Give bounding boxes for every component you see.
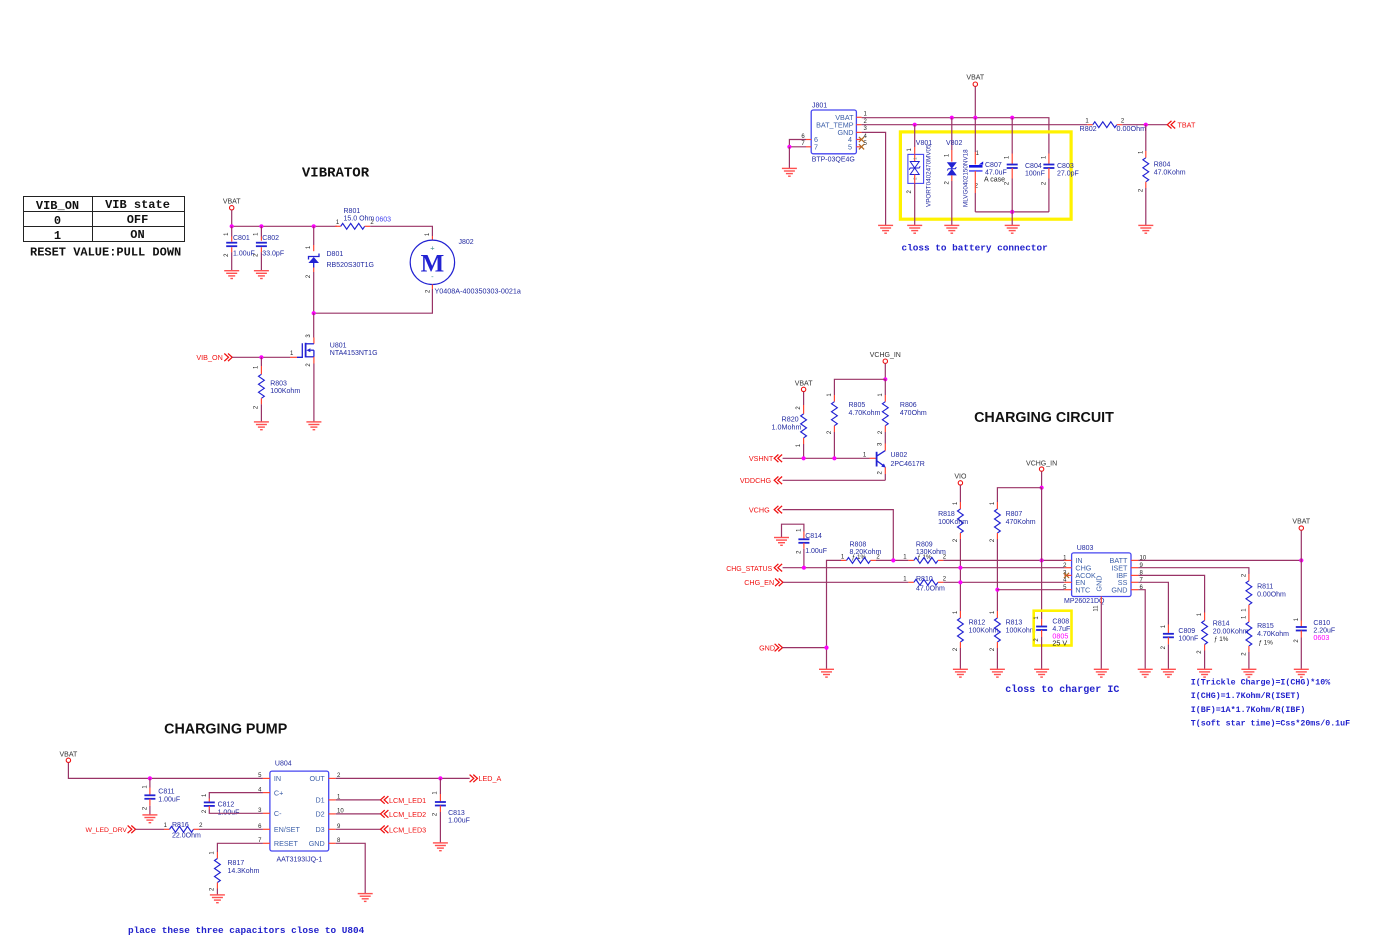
- ground (C808): [1034, 668, 1049, 670]
- svg-text:VIB state: VIB state: [105, 198, 170, 212]
- svg-text:OFF: OFF: [127, 213, 149, 227]
- svg-text:D1: D1: [315, 796, 324, 805]
- node junction C802: [259, 224, 263, 228]
- svg-text:closs to charger IC: closs to charger IC: [1005, 684, 1119, 696]
- resistor R803 100Kohm: [260, 357, 262, 366]
- svg-text:470Kohm: 470Kohm: [1006, 519, 1036, 526]
- ground (C813): [433, 842, 448, 844]
- svg-text:TBAT: TBAT: [1178, 121, 1196, 130]
- capacitor C814 1.00uF with ground: [782, 524, 804, 537]
- svg-text:M: M: [421, 250, 445, 277]
- varistor V802 MLVG0402150NV18: [951, 118, 953, 150]
- wire W_LED_DRV to R816: [136, 828, 165, 830]
- svg-text:R804: R804: [1154, 162, 1171, 169]
- resistor R817 14.3Kohm: [217, 843, 263, 852]
- wire R808 left vertical to GND port: [827, 560, 842, 669]
- node junction CHG: [958, 566, 962, 570]
- ground (U803 pin11): [1094, 668, 1109, 670]
- svg-text:R808: R808: [850, 541, 867, 548]
- svg-text:C807: C807: [985, 162, 1002, 169]
- svg-text:NTA4153NT1G: NTA4153NT1G: [330, 350, 378, 357]
- port LED_A: [470, 775, 478, 783]
- svg-text:R817: R817: [228, 860, 245, 867]
- svg-text:U802: U802: [891, 452, 908, 459]
- ground (C802): [254, 270, 269, 272]
- resistor R820 1.0Mohm: [803, 392, 805, 405]
- svg-text:11: 11: [1093, 605, 1099, 612]
- wire GND port: [783, 647, 827, 649]
- svg-text:ƒ 1%: ƒ 1%: [1259, 640, 1274, 647]
- diode D801 RB520S30T1G: [313, 226, 315, 245]
- connector J801 BTP-03QE4G: [811, 110, 856, 154]
- no-connect X pin4: [859, 137, 864, 142]
- wire U803 pin11 to ground: [1100, 597, 1102, 604]
- node junction VBAT/C810: [1299, 558, 1303, 562]
- svg-text:4.70Kohm: 4.70Kohm: [849, 410, 881, 417]
- port LCM_LED2: [336, 813, 381, 815]
- svg-text:100nF: 100nF: [1178, 636, 1198, 643]
- wire VBAT right drop: [1300, 530, 1302, 560]
- svg-text:CHARGING PUMP: CHARGING PUMP: [164, 722, 288, 738]
- svg-text:CHARGING CIRCUIT: CHARGING CIRCUIT: [974, 410, 1114, 426]
- svg-text:R811: R811: [1257, 584, 1273, 591]
- svg-text:1.0Mohm: 1.0Mohm: [772, 422, 802, 431]
- wire bottom rail (battery caps): [975, 211, 1049, 213]
- wire IN net: [943, 559, 1064, 561]
- svg-text:place these three capacitors c: place these three capacitors close to U8…: [128, 925, 365, 936]
- svg-text:1.00uF: 1.00uF: [448, 818, 470, 825]
- svg-text:R809: R809: [916, 541, 933, 548]
- svg-text:I(BF)=1A*1.7Kohm/R(IBF): I(BF)=1A*1.7Kohm/R(IBF): [1191, 705, 1306, 715]
- svg-text:VBAT: VBAT: [795, 381, 813, 388]
- wire VIB_ON to gate: [232, 356, 261, 358]
- svg-text:D2: D2: [315, 810, 324, 819]
- svg-text:closs to battery connector: closs to battery connector: [902, 243, 1048, 254]
- svg-text:GND: GND: [759, 643, 775, 652]
- svg-text:VCHG_IN: VCHG_IN: [870, 352, 901, 359]
- svg-text:RESET VALUE:PULL DOWN: RESET VALUE:PULL DOWN: [30, 245, 181, 259]
- svg-text:47.0Ohm: 47.0Ohm: [916, 586, 945, 593]
- capacitor C812 1.00uF: [209, 793, 263, 799]
- ground (R803): [254, 421, 269, 423]
- svg-text:5: 5: [848, 143, 852, 152]
- node junction VCHG/R809: [891, 558, 895, 562]
- svg-text:100nF: 100nF: [1025, 170, 1045, 177]
- svg-text:VIBRATOR: VIBRATOR: [302, 166, 370, 182]
- svg-text:1: 1: [54, 229, 61, 243]
- svg-text:VBAT: VBAT: [966, 74, 984, 81]
- capacitor C802: [260, 226, 262, 236]
- svg-text:470Ohm: 470Ohm: [900, 410, 927, 417]
- svg-text:R813: R813: [1006, 620, 1023, 627]
- svg-text:100Kohm: 100Kohm: [270, 388, 300, 395]
- node junction GND: [824, 646, 828, 650]
- svg-text:V802: V802: [946, 140, 962, 147]
- svg-text:OUT: OUT: [310, 774, 326, 783]
- port TBAT: [1167, 121, 1175, 129]
- svg-text:CHG_STATUS: CHG_STATUS: [726, 566, 772, 573]
- wire J801 pins 6,7 to ground: [789, 140, 806, 147]
- svg-text:GND: GND: [309, 839, 325, 848]
- ground (U803 GND): [1138, 668, 1153, 670]
- wire R808-R809 node: [876, 559, 908, 561]
- capacitor C810 2.20uF: [1300, 560, 1302, 616]
- wire VBAT rail: [232, 225, 337, 227]
- resistor R818 100Kohm: [959, 485, 961, 502]
- node junction C811: [148, 776, 152, 780]
- wire VCHG_IN drop: [884, 364, 886, 380]
- svg-text:4.70Kohm: 4.70Kohm: [1257, 631, 1289, 638]
- wire ISET to R811: [1138, 568, 1249, 574]
- svg-text:AAT3193IJQ-1: AAT3193IJQ-1: [277, 856, 323, 863]
- ground (GND port): [819, 668, 834, 670]
- svg-text:D3: D3: [315, 825, 324, 834]
- node junction D801/R801: [312, 224, 316, 228]
- svg-text:GND: GND: [1111, 585, 1127, 594]
- wire GND pin8: [336, 843, 366, 893]
- node junction V801: [913, 123, 917, 127]
- svg-text:C811: C811: [158, 789, 174, 796]
- wire CHG_EN net: [783, 581, 909, 583]
- no-connect X ACOK: [1064, 573, 1069, 578]
- svg-text:U803: U803: [1077, 545, 1094, 552]
- wire BATT net: [1138, 559, 1301, 561]
- svg-text:NTC: NTC: [1075, 585, 1090, 594]
- ground (R815): [1241, 668, 1256, 670]
- ground (U804 GND): [358, 893, 373, 895]
- svg-text:MP26021DQ: MP26021DQ: [1064, 598, 1105, 605]
- capacitor C803 27.0pF: [1048, 138, 1050, 154]
- svg-text:1.00uF: 1.00uF: [158, 797, 180, 804]
- svg-text:27.0pF: 27.0pF: [1057, 170, 1079, 177]
- svg-text:C813: C813: [448, 810, 465, 817]
- svg-text:VIO: VIO: [954, 474, 967, 481]
- wire IBF to R814: [1138, 575, 1204, 612]
- svg-text:47.0Kohm: 47.0Kohm: [1154, 169, 1186, 176]
- svg-text:VSHNT: VSHNT: [749, 454, 774, 463]
- port LCM_LED3: [336, 828, 381, 830]
- capacitor C801: [231, 226, 233, 236]
- IC U804 AAT3193IJQ-1: [270, 771, 329, 851]
- svg-text:LED_A: LED_A: [479, 774, 502, 783]
- svg-text:R815: R815: [1257, 623, 1274, 630]
- highlight box (battery caps): [900, 132, 1071, 219]
- svg-text:LCM_LED1: LCM_LED1: [389, 796, 426, 805]
- ground (R804): [1138, 224, 1153, 226]
- wire VCHG_IN second drop: [1041, 471, 1043, 487]
- transistor U802 2PC4617R (NPN): [870, 457, 877, 459]
- svg-text:MLVG0402150NV18: MLVG0402150NV18: [963, 149, 970, 207]
- wire R818 vertical: [959, 539, 961, 611]
- capacitor C807 47.0uF polarized: [974, 118, 976, 152]
- svg-text:C+: C+: [274, 788, 283, 797]
- transistor U801 NTA4153NT1G (N-MOSFET): [297, 343, 302, 357]
- svg-text:RESET: RESET: [274, 839, 299, 848]
- svg-text:VIB_ON: VIB_ON: [196, 353, 222, 362]
- svg-text:C814: C814: [805, 533, 822, 540]
- ground (pin3): [878, 224, 893, 226]
- svg-text:47.0uF: 47.0uF: [985, 169, 1007, 176]
- wire VCHG_IN to IN and C808: [1041, 488, 1043, 619]
- node junction C813: [438, 776, 442, 780]
- svg-text:J802: J802: [459, 239, 474, 246]
- svg-text:W_LED_DRV: W_LED_DRV: [86, 827, 128, 834]
- svg-text:A case: A case: [984, 177, 1005, 184]
- svg-text:C802: C802: [262, 235, 279, 242]
- svg-text:I(Trickle Charge)=I(CHG)*10%: I(Trickle Charge)=I(CHG)*10%: [1191, 677, 1330, 687]
- wire branch to R807: [997, 488, 1041, 496]
- svg-text:Y0408A-400350303-0021a: Y0408A-400350303-0021a: [435, 286, 521, 295]
- svg-text:VBAT: VBAT: [223, 198, 241, 205]
- svg-text:22.0Ohm: 22.0Ohm: [172, 832, 201, 839]
- ground (C801): [224, 270, 239, 272]
- ground (C810): [1294, 668, 1309, 670]
- ground (V801): [907, 224, 922, 226]
- svg-text:VDDCHG: VDDCHG: [740, 476, 772, 485]
- node junction R805: [832, 456, 836, 460]
- wire GND pin to ground: [1138, 590, 1145, 669]
- wire VSHNT net: [783, 457, 870, 459]
- svg-text:LCM_LED2: LCM_LED2: [389, 810, 426, 819]
- svg-text:R805: R805: [849, 402, 866, 409]
- svg-text:C801: C801: [233, 235, 250, 242]
- svg-text:GND: GND: [1095, 576, 1104, 592]
- wire VBAT pump rail: [68, 763, 263, 779]
- resistor R807 470Kohm: [996, 496, 998, 502]
- svg-text:2PC4617R: 2PC4617R: [891, 461, 925, 468]
- svg-text:0603: 0603: [376, 216, 392, 223]
- svg-text:D801: D801: [327, 251, 344, 258]
- node junction EN: [958, 580, 962, 584]
- port LCM_LED1: [336, 799, 381, 801]
- svg-text:1.00uF: 1.00uF: [233, 251, 255, 258]
- svg-text:R807: R807: [1006, 511, 1023, 518]
- svg-text:20.00Kohm: 20.00Kohm: [1213, 628, 1249, 635]
- node junction V802: [950, 116, 954, 120]
- node junction C801: [230, 224, 234, 228]
- ground (R812): [953, 668, 968, 670]
- svg-text:U801: U801: [330, 342, 347, 349]
- node junction C814: [802, 566, 806, 570]
- svg-text:VBAT: VBAT: [1292, 519, 1310, 526]
- highlight box (C808): [1034, 611, 1072, 646]
- svg-text:R812: R812: [969, 620, 986, 627]
- svg-text:VBAT: VBAT: [60, 752, 78, 759]
- node junction NTC: [995, 588, 999, 592]
- svg-text:C808: C808: [1052, 619, 1069, 626]
- wire R802 to TBAT: [1122, 124, 1167, 126]
- svg-text:C804: C804: [1025, 163, 1042, 170]
- svg-text:C-: C-: [274, 809, 282, 818]
- node junction R820: [802, 456, 806, 460]
- svg-text:RB520S30T1G: RB520S30T1G: [327, 262, 374, 269]
- svg-text:VPORT0402470MV05: VPORT0402470MV05: [926, 144, 933, 207]
- capacitor C804 100nF: [1011, 118, 1013, 154]
- svg-text:BTP-03QE4G: BTP-03QE4G: [812, 157, 855, 164]
- svg-text:EN/SET: EN/SET: [274, 825, 301, 834]
- wire branch to R805: [834, 379, 885, 388]
- svg-text:0.00Ohm: 0.00Ohm: [1257, 591, 1286, 598]
- svg-text:0: 0: [54, 214, 61, 228]
- svg-text:14.3Kohm: 14.3Kohm: [228, 868, 260, 875]
- svg-text:C803: C803: [1057, 163, 1074, 170]
- svg-text:33.0pF: 33.0pF: [262, 251, 284, 258]
- node junction R807 branch: [1040, 486, 1044, 490]
- ground (R817): [210, 894, 225, 896]
- no-connect X pin5: [859, 144, 864, 149]
- svg-text:C810: C810: [1313, 620, 1330, 627]
- node junction motor low: [312, 311, 316, 315]
- wire VBAT drop: [974, 87, 976, 118]
- wire VCHG net: [783, 510, 894, 561]
- IC U803 MP26021DQ: [1072, 553, 1131, 597]
- ground (C809): [1161, 668, 1176, 670]
- svg-text:C812: C812: [218, 802, 235, 809]
- wire BAT_TEMP rail: [862, 124, 1088, 126]
- wire OUT net: [336, 777, 470, 779]
- resistor R806 470Ohm: [884, 379, 886, 395]
- resistor R805 4.70Kohm: [833, 388, 835, 395]
- svg-text:1.00uF: 1.00uF: [805, 548, 827, 555]
- svg-text:CHG_EN: CHG_EN: [744, 578, 774, 587]
- wire R816 to EN/SET: [199, 828, 263, 830]
- motor J802: [410, 240, 454, 284]
- wire drain to node: [313, 313, 315, 337]
- svg-text:ON: ON: [130, 228, 144, 242]
- ground (R813): [990, 668, 1005, 670]
- svg-text:7: 7: [814, 143, 818, 152]
- svg-text:R806: R806: [900, 402, 917, 409]
- svg-text:100Kohm: 100Kohm: [938, 519, 968, 526]
- svg-text:I(CHG)=1.7Kohm/R(ISET): I(CHG)=1.7Kohm/R(ISET): [1191, 691, 1301, 701]
- node junction C804: [1010, 116, 1014, 120]
- ground (J801): [782, 167, 797, 169]
- svg-text:0603: 0603: [1313, 633, 1329, 642]
- resistor R804 47.0Kohm: [1145, 125, 1147, 151]
- ground (C811): [142, 814, 157, 816]
- wire GND pin3: [862, 132, 886, 225]
- ground (bottom rail): [1005, 224, 1020, 226]
- svg-text:R801: R801: [344, 208, 361, 215]
- node junction VCHG_IN: [883, 377, 887, 381]
- wire NTC net: [997, 589, 1064, 591]
- truth table VIB_ON / VIB state: [24, 197, 185, 242]
- svg-text:VCHG: VCHG: [749, 505, 770, 514]
- wire motor to low node: [431, 285, 433, 290]
- wire CHG_STATUS net: [783, 567, 1065, 569]
- wire VBAT rail (battery): [862, 118, 1049, 138]
- svg-text:J801: J801: [812, 103, 827, 110]
- node junction R803: [259, 355, 263, 359]
- node junction VCHG_IN/IN: [1040, 558, 1044, 562]
- wire VBAT to rail: [231, 210, 233, 226]
- svg-text:R803: R803: [270, 380, 287, 387]
- ground (U801): [306, 421, 321, 423]
- svg-text:100Kohm: 100Kohm: [1006, 627, 1036, 634]
- svg-text:U804: U804: [275, 761, 292, 768]
- svg-text:ƒ 1%: ƒ 1%: [1214, 636, 1229, 643]
- node junction bottom: [1010, 210, 1014, 214]
- svg-text:LCM_LED3: LCM_LED3: [389, 825, 426, 834]
- svg-text:25 V: 25 V: [1052, 639, 1067, 648]
- svg-text:T(soft star time)=Css*20ms/0.1: T(soft star time)=Css*20ms/0.1uF: [1191, 719, 1350, 729]
- ground (R814): [1197, 668, 1212, 670]
- svg-text:IN: IN: [274, 774, 281, 783]
- wire R801 to motor: [370, 226, 432, 236]
- node junction C807: [973, 116, 977, 120]
- wire SS to C809: [1138, 582, 1168, 624]
- node junction pin7: [787, 145, 791, 149]
- tvs V801 VPORT0402470MV05: [914, 125, 916, 147]
- svg-text:R814: R814: [1213, 621, 1230, 628]
- node junction R804: [1144, 123, 1148, 127]
- svg-text:VIB_ON: VIB_ON: [36, 199, 79, 213]
- svg-text:R818: R818: [938, 511, 955, 518]
- svg-text:C809: C809: [1178, 628, 1195, 635]
- ground (V802): [944, 224, 959, 226]
- wire source to ground: [313, 364, 315, 422]
- wire VDDCHG net: [783, 479, 886, 481]
- wire EN net: [943, 581, 1064, 583]
